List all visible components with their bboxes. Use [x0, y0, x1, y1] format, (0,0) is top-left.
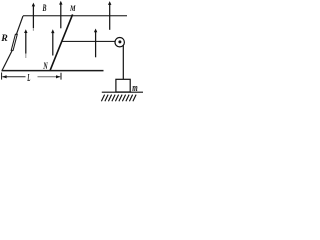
svg-text:L: L: [27, 72, 31, 83]
svg-text:B: B: [42, 3, 47, 14]
svg-text:N: N: [42, 61, 48, 72]
svg-text:M: M: [69, 5, 76, 14]
svg-text:R: R: [0, 35, 8, 45]
svg-text:m: m: [132, 82, 138, 94]
